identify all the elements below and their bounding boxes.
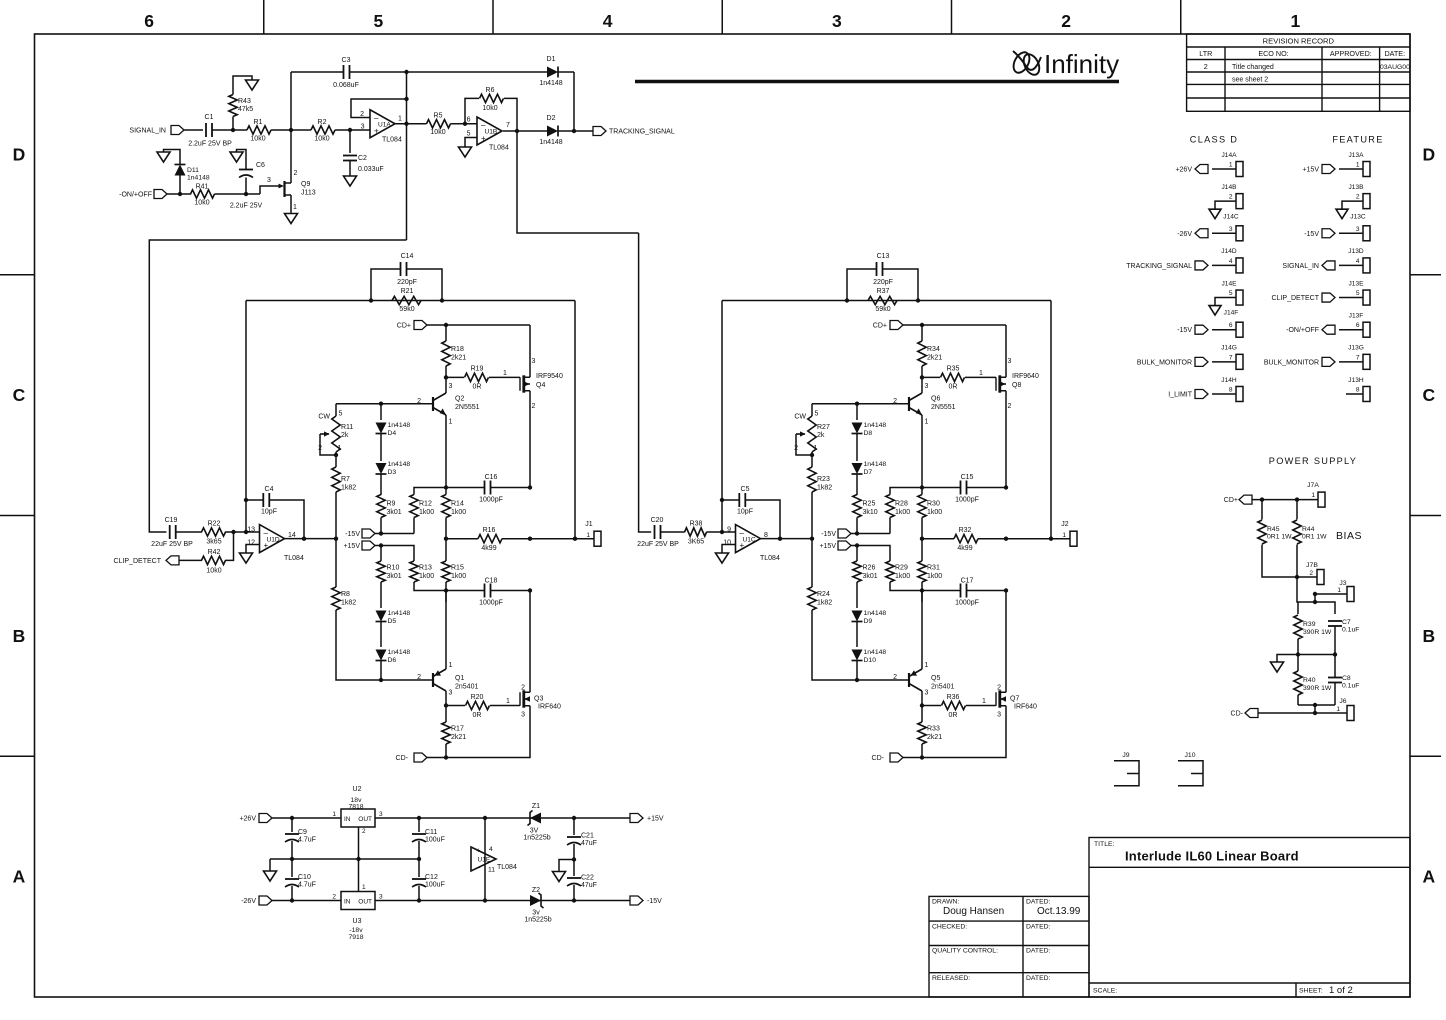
svg-text:C4: C4 [265,486,274,493]
svg-text:R26: R26 [863,565,876,572]
wire [407,123,478,125]
svg-text:U3: U3 [353,918,362,925]
node [244,192,248,196]
svg-text:1k82: 1k82 [817,600,832,607]
transistor Q7 IRF640 [1005,591,1007,693]
svg-text:1000pF: 1000pF [955,600,979,607]
resistor R45 0R1 1W [1261,500,1263,520]
resistor R12 [413,518,415,534]
svg-text:R10: R10 [387,565,400,572]
svg-text:IRF640: IRF640 [1014,704,1037,711]
ground [246,80,259,90]
ground [285,214,298,224]
svg-text:Title changed: Title changed [1232,64,1274,71]
resistor R23 1k82 [808,467,816,492]
wire -15V rail [851,533,890,535]
svg-text:1 of 2: 1 of 2 [1329,985,1353,996]
diode D7 [856,434,858,462]
svg-text:R31: R31 [927,565,940,572]
port -15V [630,896,643,905]
svg-text:D2: D2 [547,115,556,122]
svg-text:1000pF: 1000pF [955,497,979,504]
svg-text:BIAS: BIAS [1336,530,1362,542]
svg-text:J14C: J14C [1223,213,1239,220]
node [855,678,859,682]
svg-text:R28: R28 [895,501,908,508]
wire [167,193,191,195]
svg-text:03AUG00: 03AUG00 [1380,64,1410,71]
regulator U2 7818 [341,809,375,827]
svg-text:Q8: Q8 [1012,382,1021,389]
svg-text:D4: D4 [388,430,397,437]
svg-text:R30: R30 [927,501,940,508]
wire U1B output [503,130,548,132]
svg-text:CW: CW [318,414,330,421]
svg-text:7: 7 [1356,354,1360,361]
svg-text:4k99: 4k99 [481,545,496,552]
wire bottom rail [1298,704,1335,706]
svg-text:2.2uF 25V: 2.2uF 25V [230,203,263,210]
svg-text:Q5: Q5 [931,675,940,682]
ground [1277,655,1298,663]
svg-text:R33: R33 [927,726,940,733]
ground [459,147,472,157]
svg-text:-ON/+OFF: -ON/+OFF [1286,327,1319,334]
resistor R16 4k99 [446,538,478,540]
svg-text:R45: R45 [1267,526,1280,533]
wire [661,531,685,533]
svg-text:0.1uF: 0.1uF [1342,627,1359,634]
svg-text:IRF9640: IRF9640 [1012,373,1039,380]
feedback rail [246,300,575,302]
svg-text:TL084: TL084 [489,145,509,152]
svg-text:3: 3 [379,894,383,901]
svg-text:CW: CW [794,414,806,421]
node [1260,497,1264,501]
svg-text:U1B: U1B [485,129,498,136]
ground [1209,306,1221,316]
svg-text:1: 1 [398,116,402,123]
svg-text:+15V: +15V [1302,167,1319,174]
diode D9 [852,611,863,622]
svg-text:0R1 1W: 0R1 1W [1302,534,1327,541]
svg-text:100uF: 100uF [425,882,445,889]
svg-text:0R: 0R [473,384,482,391]
resistor R37 [868,296,897,304]
svg-text:10k0: 10k0 [250,136,265,143]
svg-text:TRACKING_SIGNAL: TRACKING_SIGNAL [609,129,675,136]
svg-text:220pF: 220pF [397,279,417,286]
zone row ticks (right) [1410,274,1441,276]
node [369,298,373,302]
svg-text:R35: R35 [947,366,960,373]
resistor R5 [427,120,451,128]
svg-text:4: 4 [489,846,493,853]
svg-text:1: 1 [586,532,590,539]
svg-text:3: 3 [449,690,453,697]
node [379,402,383,406]
svg-text:6: 6 [1229,322,1233,329]
svg-text:1: 1 [1311,492,1315,499]
capacitor C4 10pF [246,500,304,539]
ground [230,152,243,162]
svg-text:D: D [1423,144,1436,164]
svg-text:1000pF: 1000pF [479,497,503,504]
node [444,485,448,489]
svg-text:SHEET:: SHEET: [1299,988,1323,995]
ground [1209,209,1221,219]
svg-text:D3: D3 [388,469,397,476]
svg-text:J3: J3 [1339,580,1346,587]
svg-text:Q6: Q6 [931,396,940,403]
svg-text:47uF: 47uF [581,840,597,847]
node [379,678,383,682]
svg-text:OUT: OUT [358,816,372,823]
svg-text:2: 2 [294,170,298,177]
resistor R25 [856,474,858,495]
svg-text:+15V: +15V [343,543,360,550]
node [444,703,448,707]
resistor R13 [410,561,418,582]
svg-text:5: 5 [374,11,384,31]
resistor R29 [886,561,894,582]
svg-text:C21: C21 [581,833,594,840]
node [1313,711,1317,715]
svg-text:3K65: 3K65 [688,539,704,546]
svg-text:3: 3 [925,383,929,390]
svg-text:R44: R44 [1302,526,1315,533]
svg-text:+15V: +15V [647,816,664,823]
svg-text:C5: C5 [741,486,750,493]
diode D11 [179,175,181,194]
svg-text:IN: IN [344,899,351,906]
svg-text:3: 3 [832,11,842,31]
capacitor C14 [371,269,442,301]
svg-text:1n4148: 1n4148 [388,649,411,656]
svg-text:10k0: 10k0 [430,129,445,136]
svg-text:J14A: J14A [1221,152,1237,159]
svg-text:J7A: J7A [1307,482,1319,489]
capacitor C1 [205,123,207,137]
potentiometer R11 2k [335,404,337,416]
node [244,498,248,502]
transistor Q1 2n5401 [432,673,434,687]
ground [344,176,357,186]
ground [157,152,170,162]
svg-text:3k10: 3k10 [863,509,878,516]
wire U1B pin5 [465,138,477,148]
wire top to C3 [291,71,407,73]
svg-text:CLIP_DETECT: CLIP_DETECT [1272,295,1320,302]
svg-text:CLIP_DETECT: CLIP_DETECT [114,558,162,565]
svg-text:2: 2 [318,445,322,452]
svg-text:R9: R9 [387,501,396,508]
wire [225,532,234,560]
op-amp U1C [736,525,761,553]
resistor R8 1k82 [335,539,337,587]
svg-text:1k00: 1k00 [451,509,466,516]
svg-text:Q9: Q9 [301,181,310,188]
svg-text:SCALE:: SCALE: [1093,988,1117,995]
svg-text:-15V: -15V [345,531,360,538]
wire feedback to output [574,301,576,539]
resistor R35 [922,376,940,378]
svg-text:BULK_MONITOR: BULK_MONITOR [1137,359,1192,366]
resistor R26 [856,546,858,562]
svg-text:0.1uF: 0.1uF [1342,683,1359,690]
svg-text:DRAWN:: DRAWN: [932,899,959,906]
svg-text:1: 1 [1337,587,1341,594]
wire [707,531,723,533]
svg-text:1: 1 [449,419,453,426]
svg-text:1: 1 [293,204,297,211]
diode D4 [380,404,382,420]
ground [716,553,729,563]
wire [1315,594,1347,602]
svg-text:R36: R36 [947,694,960,701]
svg-text:6: 6 [467,117,471,124]
resistor R36 0R [922,705,941,707]
wire [215,193,261,195]
logo underline bar [635,80,1119,84]
transistor Q5 2n5401 [908,673,910,687]
svg-text:4k99: 4k99 [957,545,972,552]
svg-text:Z2: Z2 [532,887,540,894]
wire U3 pin1 [358,859,360,892]
capacitor C3 [343,65,345,79]
wire [245,301,247,533]
svg-text:D11: D11 [187,167,199,174]
revision record table [1187,34,1410,111]
svg-text:2n5401: 2n5401 [931,684,954,691]
svg-text:59k0: 59k0 [399,306,414,313]
svg-text:J13C: J13C [1350,213,1366,220]
wire [1258,712,1347,714]
wire U1A pin2 feedback [351,99,407,118]
svg-text:R43: R43 [238,98,251,105]
svg-text:1: 1 [506,698,510,705]
resistor R40 390R 1W [1294,671,1302,695]
svg-text:1: 1 [332,811,336,818]
svg-text:ECO NO:: ECO NO: [1258,49,1288,58]
svg-text:-18v: -18v [349,927,363,934]
wire [290,72,292,183]
capacitor C7 0.1uF [1328,620,1342,622]
svg-text:DATE:: DATE: [1384,49,1405,58]
node [855,402,859,406]
diode D5 [376,611,387,622]
svg-text:TL084: TL084 [760,555,780,562]
svg-text:59k0: 59k0 [875,306,890,313]
svg-text:1: 1 [1229,162,1233,169]
svg-text:R17: R17 [451,726,464,733]
svg-text:390R 1W: 390R 1W [1303,685,1332,692]
svg-text:J13D: J13D [1348,248,1364,255]
wire [212,129,247,131]
svg-text:R34: R34 [927,346,940,353]
svg-text:C20: C20 [651,517,664,524]
svg-text:1: 1 [982,698,986,705]
svg-text:3: 3 [361,124,365,131]
svg-text:2: 2 [794,445,798,452]
svg-text:1: 1 [814,445,818,452]
svg-text:J14F: J14F [1224,310,1239,317]
resistor R30 [918,495,926,518]
resistor R2 [311,126,335,134]
svg-text:J14B: J14B [1221,184,1237,191]
Infinity logo glyph [1010,50,1042,78]
svg-text:POWER SUPPLY: POWER SUPPLY [1269,456,1357,466]
zone column ticks (top) [263,0,265,34]
svg-text:R5: R5 [434,113,443,120]
svg-text:100uF: 100uF [425,837,445,844]
svg-text:4: 4 [1229,258,1233,265]
svg-text:R14: R14 [451,501,464,508]
node [244,530,248,534]
svg-text:3V: 3V [530,828,539,835]
wire right channel input [639,233,652,532]
node [444,755,448,759]
svg-text:R11: R11 [341,424,353,431]
svg-text:DATED:: DATED: [1026,975,1051,982]
svg-text:1n4148: 1n4148 [864,610,887,617]
svg-text:IRF9540: IRF9540 [536,373,563,380]
svg-text:R40: R40 [1303,677,1316,684]
node [290,857,294,861]
wire [176,531,202,533]
capacitor C22 47uF [567,877,581,879]
resistor R18 [445,325,447,341]
svg-text:2: 2 [1008,403,1012,410]
svg-text:A: A [13,867,26,887]
svg-text:CD+: CD+ [1224,497,1238,504]
svg-text:J2: J2 [1061,521,1069,528]
node [1313,703,1317,707]
svg-text:-26V: -26V [1177,231,1192,238]
svg-text:4.7uF: 4.7uF [298,837,316,844]
capacitor C20 [654,525,656,539]
svg-text:see sheet 2: see sheet 2 [1232,77,1268,84]
svg-text:3v: 3v [532,910,540,917]
svg-text:3: 3 [521,712,525,719]
svg-text:2k: 2k [341,432,349,439]
svg-text:C6: C6 [256,162,265,169]
svg-text:2: 2 [997,685,1001,692]
svg-text:7818: 7818 [348,804,363,811]
svg-text:10k0: 10k0 [206,568,221,575]
svg-text:R24: R24 [817,591,830,598]
node [231,530,235,534]
svg-text:J7B: J7B [1306,562,1318,569]
svg-text:1k00: 1k00 [419,573,434,580]
svg-text:2: 2 [521,685,525,692]
wire [406,72,408,240]
node [920,375,924,379]
svg-text:1n5225b: 1n5225b [524,917,551,924]
svg-text:7: 7 [1229,354,1233,361]
svg-text:10k0: 10k0 [194,200,209,207]
svg-text:+26V: +26V [1175,167,1192,174]
capacitor C10 4.7uF [285,878,299,880]
node [920,755,924,759]
connector J1 [594,531,601,546]
svg-text:1: 1 [338,445,342,452]
svg-text:C9: C9 [298,829,307,836]
svg-text:B: B [1423,626,1436,646]
svg-text:2k21: 2k21 [927,734,942,741]
svg-text:-15V: -15V [1304,231,1319,238]
svg-text:R41: R41 [196,184,209,191]
svg-text:2.2uF 25V BP: 2.2uF 25V BP [188,141,232,148]
svg-text:Infinity: Infinity [1044,49,1119,79]
wire [1252,499,1318,501]
svg-text:22uF 25V BP: 22uF 25V BP [151,541,193,548]
zener Z2 1n5225b [530,895,541,906]
svg-text:+26V: +26V [239,816,256,823]
svg-text:220pF: 220pF [873,279,893,286]
wire [335,129,370,131]
wire U1D output [761,538,813,540]
svg-text:1k00: 1k00 [895,573,910,580]
svg-text:11: 11 [488,867,495,874]
svg-text:C: C [13,385,26,405]
svg-text:3: 3 [925,690,929,697]
capacitor C13 [847,269,918,301]
svg-text:CD-: CD- [396,755,409,762]
node [348,128,352,132]
wire U1D inputs [246,531,260,533]
svg-text:C3: C3 [342,57,351,64]
wire top rail [272,817,630,819]
svg-text:REVISION RECORD: REVISION RECORD [1263,37,1335,46]
svg-text:1k82: 1k82 [817,485,832,492]
svg-text:J14D: J14D [1221,248,1237,255]
wire -15V rail [375,533,414,535]
svg-text:DATED:: DATED: [1026,923,1051,930]
resistor R31 [918,561,926,582]
capacitor C17 1000pF [922,590,1006,592]
resistor R10 [380,546,382,562]
wire CD+ rail [427,324,530,326]
svg-text:U1C: U1C [743,537,756,544]
svg-text:J13G: J13G [1348,345,1364,352]
svg-text:I_LIMIT: I_LIMIT [1168,391,1192,398]
svg-text:3k01: 3k01 [387,573,402,580]
svg-text:C16: C16 [485,474,498,481]
svg-text:R7: R7 [341,476,350,483]
svg-text:R25: R25 [863,501,876,508]
svg-text:R38: R38 [690,521,703,528]
svg-text:-26V: -26V [241,898,256,905]
svg-text:8: 8 [1356,386,1360,393]
svg-text:J113: J113 [301,190,316,197]
svg-text:C17: C17 [961,578,974,585]
capacitor C8 0.1uF [1328,677,1342,679]
wire U1D inputs [722,531,736,533]
capacitor C16 1000pF [446,487,530,489]
svg-text:QUALITY CONTROL:: QUALITY CONTROL: [932,948,998,955]
svg-text:D: D [13,144,26,164]
svg-text:10k0: 10k0 [314,136,329,143]
svg-text:U2: U2 [353,786,362,793]
svg-text:2N5551: 2N5551 [931,404,956,411]
svg-text:Q7: Q7 [1010,696,1019,703]
svg-text:J6: J6 [1339,698,1346,705]
node [231,128,235,132]
op-amp U1E power [484,818,486,901]
wire feedback to output [1050,301,1052,539]
node [290,898,294,902]
